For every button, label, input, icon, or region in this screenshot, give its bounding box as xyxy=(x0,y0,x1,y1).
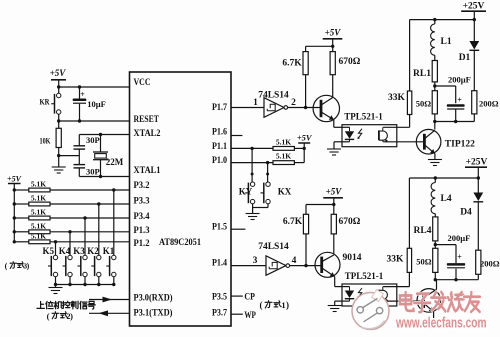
svg-text:P1.2: P1.2 xyxy=(134,239,150,249)
svg-text:): ) xyxy=(70,311,73,321)
svg-text:+5V: +5V xyxy=(325,28,342,38)
svg-text:74LS14: 74LS14 xyxy=(258,242,289,252)
svg-text:30P: 30P xyxy=(86,167,100,177)
svg-text:D4: D4 xyxy=(460,208,472,218)
svg-text:K1: K1 xyxy=(103,246,115,256)
svg-text:1: 1 xyxy=(253,98,258,108)
svg-text:(: ( xyxy=(47,311,50,321)
svg-text:5.1K: 5.1K xyxy=(276,152,291,161)
svg-text:2: 2 xyxy=(291,98,296,108)
svg-text:5.1K: 5.1K xyxy=(31,208,46,217)
svg-text:74LS14: 74LS14 xyxy=(258,91,289,101)
svg-text:TIP122: TIP122 xyxy=(445,140,475,150)
svg-text:5.1K: 5.1K xyxy=(31,180,46,189)
svg-text:4: 4 xyxy=(292,256,297,266)
svg-text:670Ω: 670Ω xyxy=(339,57,361,67)
svg-text:22M: 22M xyxy=(106,157,124,167)
svg-text:K4: K4 xyxy=(59,246,71,256)
svg-text:L4: L4 xyxy=(441,194,452,204)
svg-text:+5V: +5V xyxy=(7,175,22,184)
svg-text:L1: L1 xyxy=(441,37,452,47)
svg-text:200µF: 200µF xyxy=(448,75,471,85)
svg-text:10K: 10K xyxy=(40,137,52,146)
svg-text:KR: KR xyxy=(40,98,50,107)
svg-text:200Ω: 200Ω xyxy=(479,99,499,109)
svg-text:6.7K: 6.7K xyxy=(283,217,303,227)
svg-text:VCC: VCC xyxy=(134,78,151,88)
svg-text:P3.3: P3.3 xyxy=(134,197,150,207)
svg-text:+25V: +25V xyxy=(466,158,488,168)
svg-text:+: + xyxy=(457,253,462,262)
svg-text:+25V: +25V xyxy=(463,2,485,12)
svg-text:5.1K: 5.1K xyxy=(31,222,46,231)
svg-text:): ) xyxy=(27,262,30,271)
svg-text:+5V: +5V xyxy=(326,187,343,197)
svg-text:XTAL2: XTAL2 xyxy=(134,129,161,139)
svg-text:(: ( xyxy=(5,262,8,271)
svg-text:1: 1 xyxy=(281,300,285,310)
svg-text:RESET: RESET xyxy=(134,115,160,125)
svg-text:P1.4: P1.4 xyxy=(212,259,227,269)
svg-text:CP: CP xyxy=(244,293,255,303)
svg-text:P3.0(RXD): P3.0(RXD) xyxy=(134,293,173,304)
svg-text:33K: 33K xyxy=(388,93,406,103)
svg-text:2: 2 xyxy=(67,312,71,321)
svg-text:XTAL1: XTAL1 xyxy=(134,166,161,176)
svg-text:3: 3 xyxy=(253,256,258,266)
svg-text:P3.7: P3.7 xyxy=(212,309,227,319)
svg-text:D1: D1 xyxy=(459,53,471,63)
svg-text:RL4: RL4 xyxy=(414,226,432,236)
svg-text:5.1K: 5.1K xyxy=(276,138,291,147)
svg-text:P3.5: P3.5 xyxy=(212,293,227,303)
svg-text:+: + xyxy=(80,90,85,99)
svg-text:P1.5: P1.5 xyxy=(212,223,227,233)
svg-text:9014: 9014 xyxy=(343,253,362,263)
svg-text:P1.7: P1.7 xyxy=(212,103,227,113)
svg-text:10µF: 10µF xyxy=(87,99,106,109)
svg-text:P1.6: P1.6 xyxy=(212,128,227,138)
svg-text:5.1K: 5.1K xyxy=(31,232,46,241)
svg-text:50Ω: 50Ω xyxy=(416,257,432,267)
svg-text:+5V: +5V xyxy=(50,68,67,78)
svg-text:30P: 30P xyxy=(86,135,100,145)
svg-text:P1.3: P1.3 xyxy=(134,226,150,236)
svg-text:K5: K5 xyxy=(42,246,54,256)
svg-text:K3: K3 xyxy=(73,246,85,256)
svg-text:(: ( xyxy=(260,300,263,310)
svg-text:RL1: RL1 xyxy=(413,69,431,79)
svg-text:670Ω: 670Ω xyxy=(339,217,361,227)
svg-text:P1.1: P1.1 xyxy=(212,142,227,152)
svg-text:www.elecfans.com: www.elecfans.com xyxy=(395,316,486,332)
svg-text:P3.2: P3.2 xyxy=(134,181,150,191)
svg-text:KX: KX xyxy=(278,187,292,197)
svg-text:KY: KY xyxy=(239,187,253,197)
svg-text:TPL521-1: TPL521-1 xyxy=(344,112,383,122)
svg-text:WP: WP xyxy=(244,311,256,321)
svg-text:33K: 33K xyxy=(387,255,405,265)
svg-text:3: 3 xyxy=(23,261,27,270)
svg-text:TPL521-1: TPL521-1 xyxy=(345,271,384,281)
svg-text:+5V: +5V xyxy=(297,133,313,143)
svg-text:): ) xyxy=(286,300,289,310)
svg-text:P1.0: P1.0 xyxy=(212,156,227,166)
svg-text:P3.1(TXD): P3.1(TXD) xyxy=(134,308,173,319)
svg-text:6.7K: 6.7K xyxy=(282,59,302,69)
svg-text:50Ω: 50Ω xyxy=(416,99,432,109)
svg-text:200Ω: 200Ω xyxy=(480,259,500,269)
svg-text:5.1K: 5.1K xyxy=(31,194,46,203)
svg-text:+: + xyxy=(457,95,462,104)
svg-text:K2: K2 xyxy=(87,246,99,256)
svg-text:P3.4: P3.4 xyxy=(134,212,150,222)
svg-text:200µF: 200µF xyxy=(447,233,470,243)
svg-text:AT89C2051: AT89C2051 xyxy=(159,238,201,248)
